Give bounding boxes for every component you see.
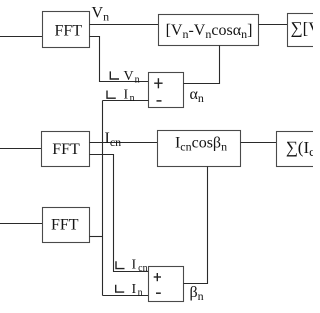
- summation block Sum(I (clipped at right edge): [277, 132, 317, 167]
- FFT block 3 (In): [43, 208, 90, 243]
- svg-text:FFT: FFT: [51, 216, 79, 233]
- wire beta-n output up into cos block: [184, 167, 208, 284]
- wire alpha-n output up into cos block: [184, 46, 220, 84]
- block Icn cos bn: [158, 131, 241, 167]
- svg-text:∑[V: ∑[V: [291, 19, 314, 38]
- wire Vn output: [90, 24, 159, 26]
- label angle symbol for Icn: [116, 261, 125, 268]
- wire to sum I block: [241, 142, 277, 144]
- wire input 3 (load current signal): [0, 223, 43, 225]
- wire angle-Icn tap down to comparator 2 plus: [90, 155, 149, 272]
- svg-text:FFT: FFT: [55, 23, 83, 40]
- svg-text:FFT: FFT: [52, 141, 80, 158]
- phase comparator 2 (beta) box: [149, 267, 184, 302]
- FFT block 1 (voltage): [43, 12, 90, 48]
- block [Vn-Vn cos an]: [159, 15, 259, 46]
- wire In output stub: [90, 236, 103, 238]
- label angle symbol for Vn: [110, 71, 119, 79]
- comparator 1 plus sign: [154, 78, 162, 88]
- svg-text:∑(Ic: ∑(Ic: [286, 138, 313, 159]
- wire to sum V block: [259, 24, 288, 26]
- comparator 2 plus sign: [154, 273, 161, 281]
- summation block Sum[V (clipped at right edge): [288, 14, 318, 47]
- comparator 1 minus sign: [157, 100, 162, 102]
- wire angle-In into comparator 1 minus: [103, 100, 149, 102]
- comparator 2 minus sign: [156, 292, 161, 294]
- wire angle-Vn tap: [90, 37, 149, 82]
- wire angle-In into comparator 2 minus: [103, 295, 149, 297]
- wire input 2 (compensating current signal): [0, 148, 42, 150]
- label angle symbol for In (bottom): [116, 285, 125, 292]
- phase comparator 1 (alpha) box: [149, 73, 184, 108]
- wire In phase bus vertical: [102, 101, 104, 296]
- label angle symbol for In (top): [107, 91, 116, 99]
- FFT block 2 (Icn): [42, 132, 90, 167]
- wire input 1 (voltage signal): [0, 36, 43, 38]
- wire Icn output: [90, 142, 158, 144]
